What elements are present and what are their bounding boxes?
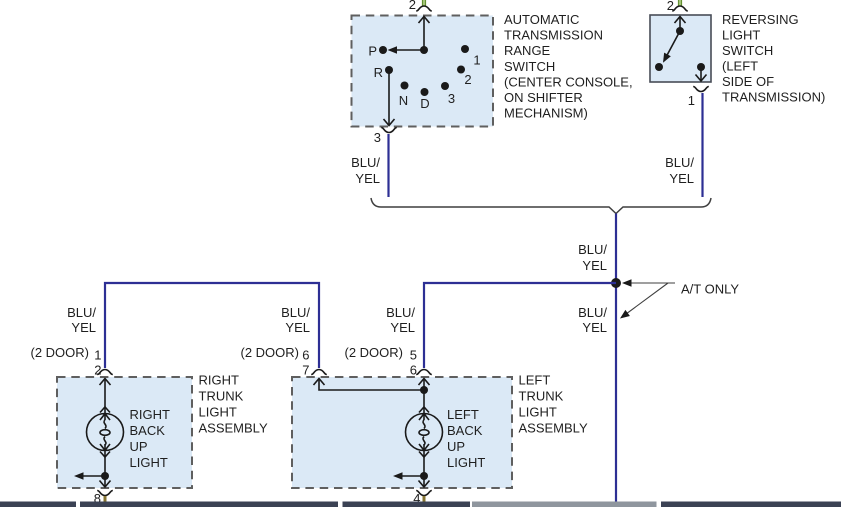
svg-text:RANGE: RANGE (504, 43, 551, 58)
wire: right trunk pin stem to bulb (104, 379, 106, 408)
wire: left trunk pin stem to bulb (423, 379, 425, 408)
arrow at right trunk pin edge (100, 379, 111, 386)
svg-text:BLU/: BLU/ (578, 242, 607, 257)
right trunk light assembly box (57, 377, 192, 488)
svg-text:1: 1 (94, 348, 101, 363)
connector at reversing switch pin 1 (693, 87, 709, 92)
frame bar segment 5 (661, 502, 841, 507)
arrow at left trunk pin 7 edge (314, 379, 325, 386)
bulb: left back up light (406, 407, 443, 457)
svg-text:(LEFT: (LEFT (722, 59, 758, 74)
svg-text:ASSEMBLY: ASSEMBLY (519, 421, 588, 436)
wire: green wire above reversing switch pin 2 (678, 0, 682, 6)
svg-text:(2 DOOR): (2 DOOR) (345, 345, 404, 360)
wire: ground branch left (399, 475, 424, 477)
svg-text:RIGHT: RIGHT (130, 407, 171, 422)
svg-text:TRANSMISSION: TRANSMISSION (504, 28, 603, 43)
svg-text:YEL: YEL (285, 320, 310, 335)
svg-text:LIGHT: LIGHT (519, 405, 557, 420)
contact R (385, 66, 393, 74)
svg-text:REVERSING: REVERSING (722, 12, 799, 27)
contact 2 (457, 66, 465, 74)
node: A/T splice junction (612, 279, 620, 287)
wire: bulb to bottom junction (423, 457, 425, 476)
svg-text:P: P (368, 44, 377, 59)
svg-text:BACK: BACK (447, 423, 483, 438)
wire: bulb to bottom junction (104, 457, 106, 476)
connector at left trunk pins 6/7 (311, 370, 327, 375)
svg-text:UP: UP (130, 439, 148, 454)
svg-text:YEL: YEL (669, 171, 694, 186)
svg-text:LIGHT: LIGHT (199, 405, 237, 420)
arrowhead toward P contact (388, 46, 398, 54)
node: pin7/pin6 junction (420, 386, 428, 394)
svg-text:YEL: YEL (355, 171, 380, 186)
wire: BLU/YEL from AT pin 3 down to brace (387, 134, 389, 197)
svg-text:TRANSMISSION): TRANSMISSION) (722, 90, 825, 105)
svg-text:3: 3 (374, 130, 381, 145)
svg-text:YEL: YEL (390, 320, 415, 335)
wire: R contact down to pin 3 (388, 70, 390, 126)
node: left trunk bottom junction (420, 472, 428, 480)
frame bar segment 4 (light) (472, 502, 657, 507)
svg-text:2: 2 (409, 0, 416, 12)
svg-text:BLU/: BLU/ (578, 305, 607, 320)
svg-text:SIDE OF: SIDE OF (722, 74, 774, 89)
svg-text:1: 1 (688, 93, 695, 108)
wire: wiper arm to P (390, 49, 424, 51)
svg-text:5: 5 (410, 348, 417, 363)
svg-text:D: D (420, 96, 429, 111)
arrow at reversing switch pin 2 edge (675, 17, 686, 24)
arrow at right trunk bottom edge (100, 481, 111, 488)
svg-text:ON SHIFTER: ON SHIFTER (504, 90, 583, 105)
svg-text:BLU/: BLU/ (67, 305, 96, 320)
connector at right trunk pin 8 (97, 491, 113, 496)
callout arrow to wire below junction (624, 283, 668, 316)
svg-text:1: 1 (473, 53, 480, 68)
svg-text:R: R (374, 65, 383, 80)
wire: ground branch left (80, 475, 105, 477)
wire: reversing switch wiper arm (665, 31, 680, 59)
wire: green wire above AT switch pin 2 (422, 0, 426, 6)
svg-text:LIGHT: LIGHT (722, 28, 760, 43)
arrow at left trunk pin 6 edge (419, 379, 430, 386)
svg-text:BLU/: BLU/ (281, 305, 310, 320)
wire: BLU/YEL from reversing switch pin 1 down to brace (701, 93, 703, 197)
svg-text:BLU/: BLU/ (351, 155, 380, 170)
svg-text:(CENTER CONSOLE,: (CENTER CONSOLE, (504, 74, 633, 89)
connector at left trunk pin 4 (416, 491, 432, 496)
svg-text:BLU/: BLU/ (665, 155, 694, 170)
contact (reversing switch lower left) (655, 63, 663, 71)
svg-text:TRUNK: TRUNK (199, 389, 244, 404)
arrow at pin 3 box edge (384, 119, 395, 126)
svg-text:YEL: YEL (582, 258, 607, 273)
wire: AT switch common stem to pin 2 (423, 17, 425, 50)
svg-text:YEL: YEL (71, 320, 96, 335)
connector at AT switch pin 3 (381, 128, 397, 133)
connector at left trunk pins 5/6 (416, 370, 432, 375)
svg-text:BLU/: BLU/ (386, 305, 415, 320)
svg-text:MECHANISM): MECHANISM) (504, 106, 588, 121)
node: right trunk bottom junction (101, 472, 109, 480)
node: switch pivot (420, 46, 428, 54)
svg-text:AUTOMATIC: AUTOMATIC (504, 12, 579, 27)
svg-text:RIGHT: RIGHT (199, 373, 240, 388)
wire: down to pin 4 (423, 476, 425, 487)
svg-text:BACK: BACK (130, 423, 166, 438)
arrowhead on wiper arm (660, 53, 671, 65)
contact 3 (441, 82, 449, 90)
frame bar segment 3 (343, 502, 471, 507)
svg-text:(2 DOOR): (2 DOOR) (31, 345, 90, 360)
svg-text:2: 2 (94, 363, 101, 378)
contact N (401, 82, 409, 90)
brace (371, 198, 711, 214)
wire: down to pin 8 (104, 476, 106, 487)
svg-text:LIGHT: LIGHT (130, 455, 168, 470)
svg-text:LIGHT: LIGHT (447, 455, 485, 470)
svg-text:TRUNK: TRUNK (519, 389, 564, 404)
wire: main BLU/YEL vertical from brace to bottom (615, 214, 617, 505)
contact P (379, 46, 387, 54)
svg-text:6: 6 (410, 363, 417, 378)
svg-text:7: 7 (302, 363, 309, 378)
svg-text:SWITCH: SWITCH (504, 59, 555, 74)
arrow at left trunk bottom edge (419, 481, 430, 488)
svg-text:A/T ONLY: A/T ONLY (681, 282, 739, 297)
svg-text:ASSEMBLY: ASSEMBLY (199, 421, 268, 436)
svg-text:6: 6 (302, 348, 309, 363)
svg-text:UP: UP (447, 439, 465, 454)
contact 1 (461, 45, 469, 53)
wire: horizontal BLU/YEL right trunk run (105, 283, 319, 368)
wire: pin 7 branch to main stem (319, 379, 424, 391)
contact D (421, 88, 429, 96)
wire: horizontal BLU/YEL to left trunk pin 6 (424, 283, 616, 368)
connector at AT switch pin 2 (416, 6, 432, 11)
contact (reversing switch pin 1 side) (697, 63, 705, 71)
svg-text:2: 2 (464, 72, 471, 87)
frame bar segment 2 (80, 502, 338, 507)
arrow at pin 2 box edge (419, 17, 430, 24)
arrow at reversing switch pin 1 edge (696, 75, 707, 82)
svg-text:YEL: YEL (582, 320, 607, 335)
svg-text:(2 DOOR): (2 DOOR) (241, 345, 300, 360)
frame bar segment 1 (0, 502, 76, 507)
bulb: right back up light (87, 407, 124, 457)
connector at reversing switch pin 2 (672, 6, 688, 11)
svg-text:N: N (399, 93, 408, 108)
left trunk light assembly box (292, 377, 512, 488)
wire: YEL wire below pin 8 (104, 496, 107, 506)
AT range switch box (352, 16, 494, 127)
svg-text:3: 3 (448, 91, 455, 106)
wire: reversing switch common stem (679, 17, 681, 32)
svg-text:LEFT: LEFT (447, 407, 479, 422)
callout arrow to junction (627, 282, 675, 284)
wire: pin 1 contact down to box edge (700, 67, 702, 81)
connector at right trunk pins 1/2 (97, 370, 113, 375)
svg-text:SWITCH: SWITCH (722, 43, 773, 58)
node: reversing switch common contact (676, 27, 684, 35)
wire: YEL wire below pin 4 (423, 496, 426, 506)
svg-text:LEFT: LEFT (519, 373, 551, 388)
reversing light switch box (650, 15, 711, 82)
